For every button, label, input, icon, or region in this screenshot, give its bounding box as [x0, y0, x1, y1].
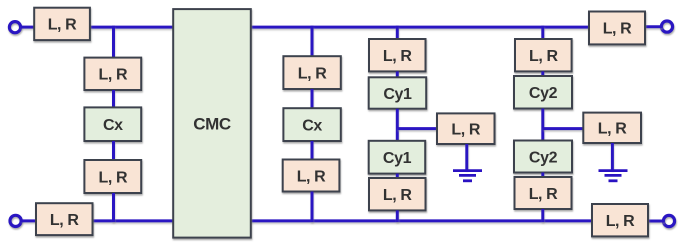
wire branch1 mid-upper	[112, 90, 115, 109]
block L,R branch1 upper	[84, 58, 141, 90]
svg-text:Cy1: Cy1	[383, 86, 412, 103]
svg-text:Cy2: Cy2	[529, 150, 558, 167]
wire branch2 mid-upper	[311, 89, 314, 109]
svg-text:L, R: L, R	[297, 169, 326, 186]
svg-text:L, R: L, R	[298, 66, 327, 83]
svg-text:L, R: L, R	[598, 121, 627, 138]
wire top rail: CMC to R7 (junctions at x=312, 397, 543)	[251, 26, 590, 29]
block L,R branch4 lower	[515, 177, 572, 209]
wire branch4 bottom	[541, 209, 544, 222]
wire branch4 to earth block	[543, 127, 584, 130]
ground symbol 1	[453, 171, 482, 181]
svg-text:Cy1: Cy1	[383, 150, 412, 167]
wire branch3 between L,R and Cy1	[396, 71, 399, 78]
wire top rail: R1 to CMC (junction node at x=113.5)	[90, 26, 174, 29]
block L,R branch3 lower	[369, 178, 426, 210]
wire earth leg 1 stem	[465, 144, 468, 170]
ground symbol 2	[599, 171, 628, 181]
wire branch3 middle (junction to earth leg)	[396, 109, 399, 142]
wire bottom rail: R8 to terminal	[648, 220, 665, 223]
block L,R branch2 upper	[283, 56, 340, 89]
series block L,R top-right	[589, 12, 645, 45]
wire branch4 top	[541, 26, 544, 40]
svg-text:L, R: L, R	[383, 187, 412, 204]
svg-text:L, R: L, R	[50, 212, 79, 229]
capacitor Cx branch2	[283, 108, 340, 141]
wire branch4 between L,R and Cy2	[541, 71, 544, 77]
svg-text:L, R: L, R	[529, 48, 558, 65]
svg-text:L, R: L, R	[603, 21, 632, 38]
svg-text:L, R: L, R	[98, 67, 127, 84]
series block L,R bottom-left	[36, 203, 93, 235]
wire top rail: terminal to R1	[20, 26, 34, 29]
svg-text:L, R: L, R	[451, 122, 480, 139]
capacitor Cy1 lower	[369, 141, 426, 174]
wire branch1 top	[112, 26, 115, 59]
wire branch3 bottom	[396, 210, 399, 222]
wire bottom rail: CMC to R8 (junctions at x=312, 397, 543)	[251, 219, 593, 222]
block L,R branch4 upper	[515, 39, 572, 71]
wire branch2 bottom	[311, 192, 314, 223]
capacitor Cx branch1	[84, 107, 141, 141]
block L,R earth leg 1	[437, 113, 495, 144]
terminal OUT-N	[663, 215, 674, 226]
series block L,R top-left	[34, 8, 90, 40]
wire branch4 between Cy2 and L,R	[541, 173, 544, 179]
wire branch3 top	[396, 26, 399, 40]
capacitor Cy2 lower	[514, 141, 572, 173]
block L,R branch3 upper	[369, 39, 426, 71]
wire branch2 mid-lower	[311, 141, 314, 161]
wire earth leg 2 stem	[611, 143, 614, 170]
svg-text:Cx: Cx	[103, 117, 123, 134]
block L,R earth leg 2	[583, 113, 641, 143]
terminal OUT-L	[661, 21, 672, 32]
wire top rail: R7 to terminal	[645, 25, 663, 28]
block L,R branch1 lower	[84, 160, 141, 193]
capacitor Cy2 upper	[514, 76, 572, 109]
svg-text:L, R: L, R	[98, 170, 127, 187]
wire branch2 top	[311, 26, 314, 57]
svg-text:L, R: L, R	[529, 186, 558, 203]
wire branch3 between Cy1 and L,R	[396, 174, 399, 179]
series block L,R bottom-right	[592, 204, 648, 236]
svg-text:L, R: L, R	[383, 48, 412, 65]
capacitor Cy1 upper	[369, 77, 427, 108]
terminal IN-L	[9, 22, 20, 33]
wire branch1 mid-lower	[112, 141, 115, 161]
svg-text:Cy2: Cy2	[529, 85, 558, 102]
wire branch4 middle (junction to earth leg)	[541, 109, 544, 142]
wire branch1 bottom	[112, 193, 115, 222]
block L,R branch2 lower	[283, 160, 340, 192]
svg-text:Cx: Cx	[302, 118, 322, 135]
svg-text:L, R: L, R	[48, 17, 77, 34]
common-mode choke CMC	[173, 9, 251, 238]
wire branch3 to earth block	[397, 127, 437, 130]
terminal IN-N	[10, 215, 21, 226]
wire bottom rail: R2 to CMC (junction node at x=113.5)	[92, 219, 174, 222]
svg-text:CMC: CMC	[193, 115, 231, 134]
svg-text:L, R: L, R	[606, 213, 635, 230]
wire bottom rail: terminal to R2	[21, 219, 37, 222]
